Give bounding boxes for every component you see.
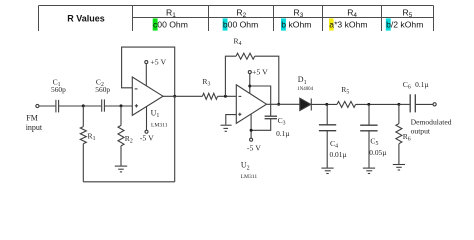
label 560p of C2 xyxy=(95,85,110,94)
capacitor C5 xyxy=(360,104,377,167)
node F junction xyxy=(397,103,400,106)
wire R3 to node C xyxy=(218,95,237,97)
svg-text:560p: 560p xyxy=(95,85,110,94)
U2 -5V node dot xyxy=(250,129,253,132)
highlight cyan on b (R3) xyxy=(281,18,286,30)
label R6 xyxy=(403,132,411,143)
svg-text:R Values: R Values xyxy=(67,14,105,24)
header R3 xyxy=(294,8,304,20)
U2 +5V supply wire xyxy=(249,74,251,94)
node D junction xyxy=(325,103,328,106)
label D1 xyxy=(298,75,307,86)
wire R5 to node E xyxy=(356,103,399,105)
ground of C4 xyxy=(321,168,333,173)
svg-text:R1: R1 xyxy=(166,8,176,20)
svg-text:C4: C4 xyxy=(330,139,338,150)
highlight cyan on b (R2) xyxy=(223,18,228,30)
svg-text:R5: R5 xyxy=(341,85,349,96)
FM input terminal xyxy=(36,104,39,107)
svg-text:R1: R1 xyxy=(88,132,96,143)
header R2 xyxy=(236,8,246,20)
svg-text:output: output xyxy=(411,126,431,135)
capacitor C3 xyxy=(265,116,277,119)
capacitor C6 xyxy=(410,94,415,112)
resistor R2 xyxy=(118,106,124,166)
label 0.1u of C3 xyxy=(276,129,290,138)
U1 +5V terminal xyxy=(145,61,148,64)
table row divider xyxy=(133,17,434,19)
U2 plus sign xyxy=(238,113,241,116)
table border top xyxy=(39,5,434,7)
wire C2 to node B and U1 plus input xyxy=(105,105,133,107)
highlight yellow on a xyxy=(329,18,334,30)
svg-text:0.1µ: 0.1µ xyxy=(276,129,290,138)
U1 minus sign xyxy=(135,88,138,90)
value R5 b/2 kOhm xyxy=(386,20,423,30)
capacitor C4 xyxy=(319,104,336,167)
svg-text:U2: U2 xyxy=(241,161,250,172)
node E junction xyxy=(367,103,370,106)
label R5 xyxy=(341,85,349,96)
ground of R2 xyxy=(115,166,127,172)
label LM311 of U1 xyxy=(151,123,168,129)
svg-text:R2: R2 xyxy=(236,8,246,20)
highlight cyan on b (R5) xyxy=(386,18,391,30)
label LM311 of U2 xyxy=(241,174,258,180)
table column lines xyxy=(39,6,434,32)
label U1 xyxy=(151,109,160,120)
U2 plus input wire to ground xyxy=(226,115,237,125)
value R2 b00 Ohm xyxy=(223,20,258,30)
value R4 a*3 kOhm xyxy=(329,20,367,30)
op-amp U2 xyxy=(236,85,266,124)
svg-text:C6: C6 xyxy=(403,80,411,91)
capacitor C2 xyxy=(102,99,105,111)
U2 output node xyxy=(277,103,280,106)
op-amp U1 xyxy=(132,77,163,115)
resistor R5 xyxy=(337,101,356,107)
svg-text:R4: R4 xyxy=(234,37,242,48)
wire U1 output to R3 xyxy=(163,95,202,97)
label C1 xyxy=(53,78,61,89)
header R5 xyxy=(403,8,413,20)
table cell R Values xyxy=(67,14,105,24)
svg-text:R5: R5 xyxy=(403,8,413,20)
wire C6 to output terminal xyxy=(416,103,433,105)
svg-text:LM311: LM311 xyxy=(241,174,258,180)
R4 feedback loop wire xyxy=(225,56,278,104)
label 560p of C1 xyxy=(51,85,66,94)
svg-text:-5 V: -5 V xyxy=(140,134,154,143)
svg-text:FM: FM xyxy=(26,113,38,122)
label 0.01u of C4 xyxy=(330,150,348,159)
svg-text:Demodulated: Demodulated xyxy=(411,117,452,126)
svg-text:0.05µ: 0.05µ xyxy=(369,148,387,157)
svg-text:C3: C3 xyxy=(278,116,286,127)
node B junction xyxy=(120,104,123,107)
label C4 xyxy=(330,139,338,150)
ground of R6 xyxy=(393,165,405,171)
diode D1 xyxy=(300,98,312,110)
label C5 xyxy=(370,137,378,148)
value R1 c00 Ohm xyxy=(153,20,188,30)
resistor R3 xyxy=(202,93,217,99)
svg-text:R4: R4 xyxy=(347,8,357,20)
svg-text:c00 Ohm: c00 Ohm xyxy=(153,20,188,30)
label 0.05u of C5 xyxy=(369,148,387,157)
svg-text:input: input xyxy=(26,123,43,132)
header R1 xyxy=(166,8,176,20)
U1 feedback wire output to minus input xyxy=(122,47,175,96)
U2 -5V terminal xyxy=(250,138,253,141)
wire C1 to node A xyxy=(59,105,83,107)
label R1 xyxy=(88,132,96,143)
U2 supply node dot xyxy=(248,85,251,88)
U2 -5V supply wire xyxy=(250,114,252,138)
node A junction xyxy=(82,104,85,107)
svg-text:R3: R3 xyxy=(294,8,304,20)
svg-text:-5 V: -5 V xyxy=(247,143,261,152)
svg-text:b kOhm: b kOhm xyxy=(281,20,311,30)
header R4 xyxy=(347,8,357,20)
svg-text:LM311: LM311 xyxy=(151,123,168,129)
label -5 V of U2 xyxy=(247,143,261,152)
U2 minus sign xyxy=(239,95,242,97)
U1 output node xyxy=(173,95,176,98)
label +5 V of U2 xyxy=(252,68,268,77)
svg-text:R2: R2 xyxy=(125,134,133,145)
U2 +5V terminal xyxy=(248,71,251,74)
wire input to C1 xyxy=(39,105,55,107)
U1 -5V supply wire xyxy=(146,106,148,130)
bottom rail wire xyxy=(83,181,174,183)
svg-text:C5: C5 xyxy=(370,137,378,148)
resistor R1 xyxy=(80,106,86,182)
node C junction xyxy=(224,95,227,98)
label R2 xyxy=(125,134,133,145)
svg-text:R3: R3 xyxy=(202,77,210,88)
svg-text:R6: R6 xyxy=(403,132,411,143)
value R3 b kOhm xyxy=(281,20,311,30)
label Demodulated output xyxy=(411,117,452,135)
wire U2 output to D1 xyxy=(267,103,300,105)
ground at U2 plus input xyxy=(221,125,232,131)
label C3 xyxy=(278,116,286,127)
label C6 xyxy=(403,80,411,91)
wire D1 to node D xyxy=(311,103,337,105)
U1 plus sign xyxy=(135,104,138,107)
svg-text:D1: D1 xyxy=(298,75,307,86)
resistor R4 xyxy=(236,53,255,59)
wire node A to C2 xyxy=(83,105,101,107)
svg-text:U1: U1 xyxy=(151,109,160,120)
svg-text:+5 V: +5 V xyxy=(252,68,268,77)
U1 -5V terminal xyxy=(145,130,148,133)
label +5 V of U1 xyxy=(150,57,166,66)
ground of C5 xyxy=(363,168,375,173)
svg-text:b00 Ohm: b00 Ohm xyxy=(223,20,258,30)
wire +5V node to C3 xyxy=(250,86,271,116)
svg-text:a*3 kOhm: a*3 kOhm xyxy=(329,20,367,30)
wire U1 output down to rail xyxy=(174,96,176,182)
svg-text:560p: 560p xyxy=(51,85,66,94)
label -5 V of U1 xyxy=(140,134,154,143)
wire C3 to -5V node xyxy=(251,119,271,130)
svg-text:0.1µ: 0.1µ xyxy=(415,80,429,89)
svg-text:+5 V: +5 V xyxy=(150,57,166,66)
capacitor C1 xyxy=(56,100,59,113)
label C2 xyxy=(96,78,104,89)
label FM input xyxy=(26,113,43,132)
label 1N4004 xyxy=(297,87,313,92)
svg-text:b/2 kOhm: b/2 kOhm xyxy=(386,20,423,30)
output terminal xyxy=(433,103,436,106)
svg-text:0.01µ: 0.01µ xyxy=(330,150,348,159)
wire node F to C6 xyxy=(399,103,410,105)
label U2 xyxy=(241,161,250,172)
label R3 xyxy=(202,77,210,88)
svg-text:1N4004: 1N4004 xyxy=(297,87,313,92)
highlight green on c xyxy=(153,18,158,30)
label 0.1u of C6 xyxy=(415,80,429,89)
resistor R6 xyxy=(396,104,402,164)
label R4 xyxy=(234,37,242,48)
U1 +5V supply wire xyxy=(145,64,147,86)
